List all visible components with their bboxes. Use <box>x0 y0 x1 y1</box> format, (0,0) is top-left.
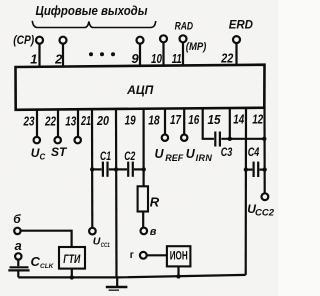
pin 23 <box>23 110 40 144</box>
svg-text:Цифровые выходы: Цифровые выходы <box>36 4 148 18</box>
pin 20 <box>96 109 116 277</box>
svg-text:9: 9 <box>131 51 139 66</box>
svg-text:2: 2 <box>54 51 63 66</box>
reference source ИОН box <box>167 246 191 276</box>
clock generator ГТИ box <box>59 247 85 277</box>
svg-text:б: б <box>13 212 21 226</box>
svg-text:CLK: CLK <box>40 263 55 270</box>
svg-text:C3: C3 <box>221 145 233 159</box>
pin 1 <box>30 37 43 67</box>
svg-text:(СР): (СР) <box>13 35 34 47</box>
svg-text:1: 1 <box>30 51 37 66</box>
svg-text:г: г <box>130 250 134 261</box>
svg-text:17: 17 <box>170 112 182 127</box>
pin 13 <box>65 109 81 143</box>
wire г to ИОН <box>147 254 167 256</box>
svg-text:11: 11 <box>172 51 182 66</box>
junction C3/right rail <box>262 137 266 141</box>
svg-text:ИОН: ИОН <box>170 251 188 263</box>
svg-text:(МР): (МР) <box>186 41 207 53</box>
svg-text:U: U <box>186 147 196 161</box>
svg-text:ГТИ: ГТИ <box>63 252 80 266</box>
svg-text:21: 21 <box>80 113 91 128</box>
junction C2/pin19 <box>142 167 146 171</box>
capacitor Cclk <box>8 254 54 278</box>
pin 14 <box>233 108 246 275</box>
svg-text:C: C <box>31 254 41 269</box>
junction pin15/C3 <box>228 137 232 141</box>
pin 22 top <box>220 36 240 65</box>
svg-text:16: 16 <box>188 112 200 127</box>
svg-text:IRN: IRN <box>196 153 213 163</box>
terminal Ucc2 circle <box>262 193 269 200</box>
pin 18 <box>148 109 168 141</box>
svg-text:в: в <box>150 226 157 238</box>
capacitor C2 <box>116 149 144 177</box>
svg-text:22: 22 <box>44 113 56 128</box>
svg-text:ERD: ERD <box>229 20 253 32</box>
svg-text:C1: C1 <box>100 149 111 163</box>
capacitor C4 <box>246 145 265 177</box>
pin 16 wire to C3 <box>188 108 214 139</box>
svg-text:20: 20 <box>96 113 109 128</box>
wire б to ГТИ <box>21 231 72 247</box>
junction ИОН/rail <box>176 274 180 278</box>
IC U1 ADC box <box>16 65 265 110</box>
svg-text:15: 15 <box>208 112 222 127</box>
bottom rail wire <box>18 275 245 278</box>
pin 2 <box>54 37 66 67</box>
svg-text:U: U <box>93 236 101 248</box>
junction C4/pin14 <box>244 167 248 171</box>
ellipsis dots <box>89 52 115 56</box>
pin 12 <box>252 108 265 194</box>
resistor R <box>138 186 160 227</box>
junction C1 C2/pin20 <box>114 167 118 171</box>
terminal в circle <box>141 228 148 235</box>
pin 22 bottom <box>44 109 61 143</box>
junction ГТИ/rail <box>70 275 74 279</box>
pin 21 <box>80 109 92 227</box>
svg-text:13: 13 <box>65 113 77 128</box>
pin 19 <box>125 109 144 187</box>
pin 15 <box>208 108 230 139</box>
junction C4/pin12 <box>262 167 266 171</box>
svg-text:18: 18 <box>148 112 160 127</box>
svg-text:ST: ST <box>51 145 68 159</box>
svg-text:R: R <box>150 194 160 209</box>
svg-text:RAD: RAD <box>175 21 194 33</box>
terminal а circle <box>15 253 21 259</box>
svg-text:U: U <box>155 147 165 161</box>
ground <box>106 277 128 290</box>
pin 9 <box>131 37 143 66</box>
svg-text:14: 14 <box>233 112 245 127</box>
junction C1/pin21 <box>90 167 94 171</box>
svg-text:C: C <box>40 153 46 162</box>
svg-text:C2: C2 <box>124 149 135 163</box>
capacitor C1 <box>92 149 116 177</box>
svg-text:10: 10 <box>151 51 163 66</box>
terminal б circle <box>14 228 20 234</box>
brace under digital outputs <box>32 21 155 28</box>
svg-text:C4: C4 <box>248 145 260 159</box>
pin 11 <box>172 35 187 66</box>
svg-text:23: 23 <box>23 114 35 129</box>
pin 17 <box>170 108 187 140</box>
svg-text:22: 22 <box>220 51 233 66</box>
svg-text:U: U <box>31 146 40 160</box>
pin 10 <box>151 35 167 66</box>
svg-text:CC1: CC1 <box>101 242 110 249</box>
terminal Ucc1 circle <box>89 228 96 235</box>
capacitor C3 <box>215 132 264 160</box>
svg-text:12: 12 <box>252 112 264 127</box>
svg-text:REF: REF <box>165 153 184 163</box>
svg-text:19: 19 <box>125 113 137 128</box>
svg-text:CC2: CC2 <box>255 208 274 218</box>
svg-text:а: а <box>15 238 22 253</box>
svg-text:АЦП: АЦП <box>126 83 153 97</box>
terminal г circle <box>140 252 147 259</box>
